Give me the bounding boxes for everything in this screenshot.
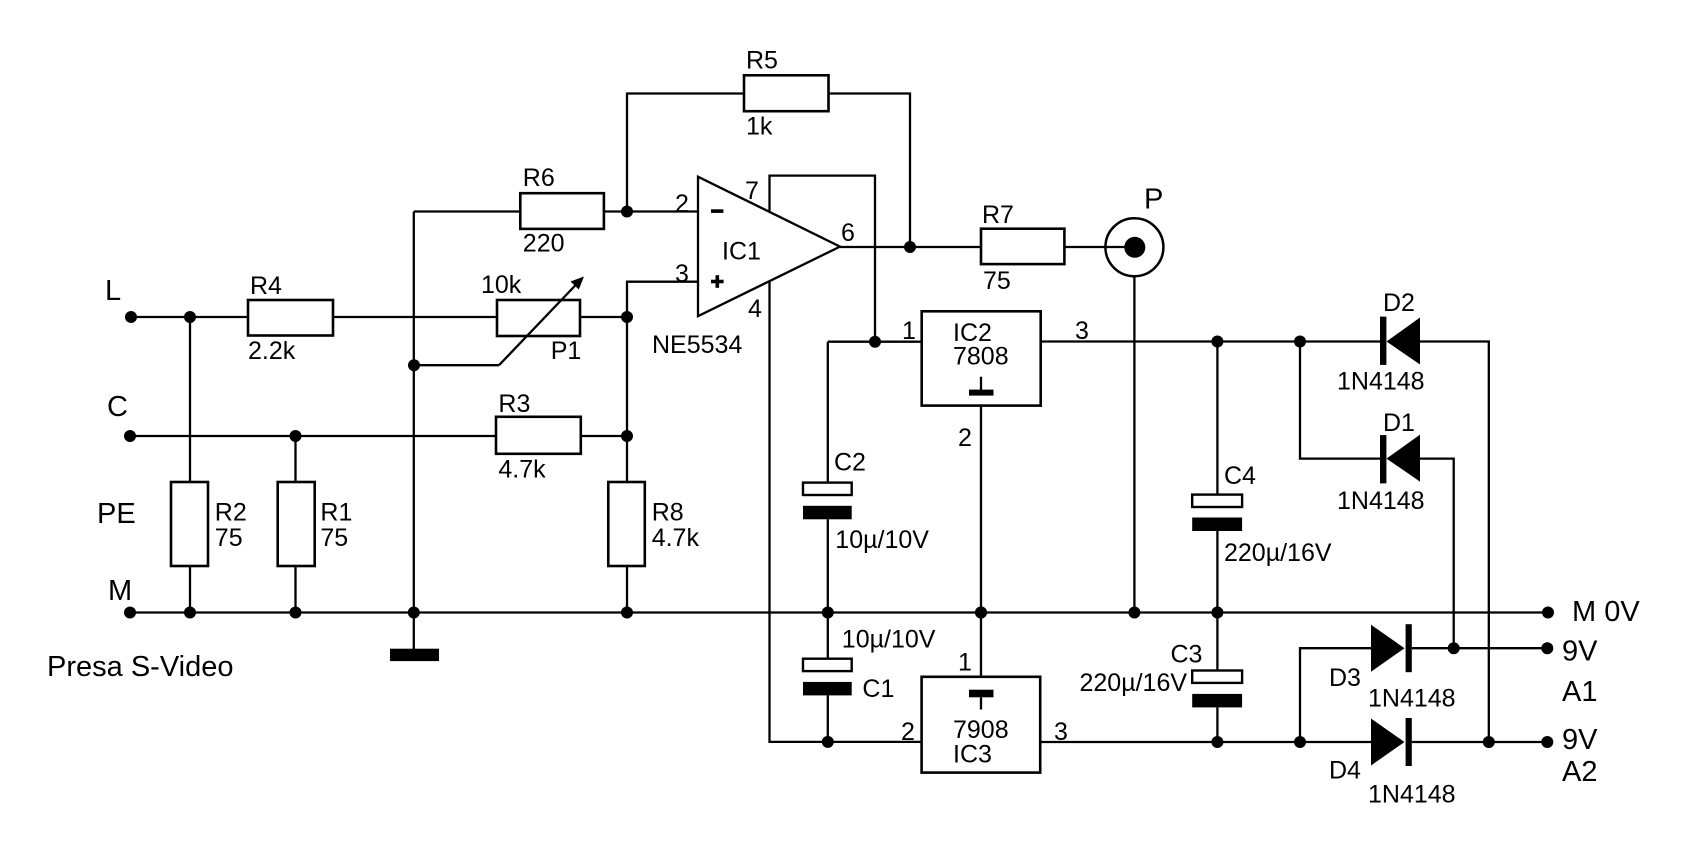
svg-text:220µ/16V: 220µ/16V [1224, 539, 1332, 567]
wire R6 left [414, 210, 521, 212]
wire C3 top [1216, 613, 1218, 671]
node wiper junction [408, 359, 420, 371]
wire R8 bottom [626, 566, 628, 613]
svg-text:3: 3 [675, 260, 689, 288]
resistor R8 [608, 482, 645, 566]
node M-IC2 [975, 607, 987, 619]
resistor R3 [496, 417, 581, 454]
wire node to IC2 pin1 [828, 341, 922, 343]
node R3 output junction [621, 430, 633, 442]
wire IC3 pin1 [980, 613, 982, 677]
node R6 output junction [621, 206, 633, 218]
svg-text:220µ/16V: 220µ/16V [1080, 669, 1188, 697]
node M-C2 [822, 607, 834, 619]
node C3 bottom junction [1211, 736, 1223, 748]
svg-text:R2: R2 [215, 499, 247, 527]
svg-text:10µ/10V: 10µ/10V [842, 626, 936, 654]
node D4-D2 junction [1483, 736, 1495, 748]
svg-text:L: L [105, 275, 121, 307]
wire R4 to P1 [333, 316, 497, 318]
node supply junction [869, 336, 881, 348]
svg-text:A1: A1 [1562, 676, 1597, 708]
node M-R8 [621, 607, 633, 619]
svg-text:75: 75 [215, 524, 243, 552]
svg-text:1N4148: 1N4148 [1368, 781, 1456, 809]
wire L input [131, 316, 248, 318]
potentiometer P1 [497, 300, 580, 336]
svg-text:1N4148: 1N4148 [1337, 368, 1425, 396]
wire vertical branch to ground [413, 212, 415, 613]
diode D4 [1371, 719, 1405, 766]
svg-text:IC3: IC3 [953, 740, 992, 768]
svg-text:PE: PE [97, 498, 136, 530]
svg-text:R8: R8 [652, 499, 684, 527]
wire D1 branch [1300, 342, 1380, 459]
node M-ground [408, 607, 420, 619]
svg-text:2.2k: 2.2k [248, 337, 296, 365]
wire R2 bottom [189, 566, 191, 613]
wire C4 top [1216, 342, 1218, 495]
svg-text:1N4148: 1N4148 [1368, 685, 1456, 713]
diode D1 [1380, 435, 1386, 483]
wire C rail [130, 435, 496, 437]
svg-text:9V: 9V [1562, 635, 1598, 667]
wire P1 out [580, 316, 627, 318]
svg-text:R1: R1 [320, 499, 352, 527]
wire R5 feedback right segment [829, 94, 911, 248]
wire op-amp pin2 input [627, 210, 698, 212]
wire R5 feedback left segment [627, 94, 744, 212]
node M-R2 [184, 607, 196, 619]
svg-text:Presa S-Video: Presa S-Video [47, 651, 233, 683]
svg-text:2: 2 [958, 424, 972, 452]
resistor R2 [171, 482, 208, 566]
svg-text:M: M [108, 575, 132, 607]
svg-text:1N4148: 1N4148 [1337, 487, 1425, 515]
node M 0V terminal [1542, 607, 1554, 619]
node D3/D4 branch junction [1294, 736, 1306, 748]
node M-C4 [1211, 607, 1223, 619]
svg-text:220: 220 [523, 230, 565, 258]
svg-text:2: 2 [901, 718, 915, 746]
resistor R7 [981, 229, 1064, 264]
wire R6 right [604, 210, 627, 212]
resistor R6 [520, 193, 604, 229]
node D3-D1 junction [1448, 642, 1460, 654]
wire IC2 pin3 rail [1041, 340, 1380, 342]
svg-text:1: 1 [958, 649, 972, 677]
wire D4 to A2 terminal [1412, 741, 1548, 743]
wire pin7 supply loop [770, 176, 876, 342]
svg-text:R7: R7 [982, 201, 1014, 229]
node M-IC3 [975, 607, 987, 619]
wire D1 to A1 column [1420, 459, 1454, 649]
op-amp U1 IC1 [698, 177, 840, 317]
wire C2 top [827, 342, 829, 483]
node L junction [184, 311, 196, 323]
svg-text:M 0V: M 0V [1572, 596, 1640, 628]
node L terminal [125, 311, 137, 323]
wire op-amp pin3 input [627, 282, 698, 482]
node C1 bottom junction [822, 736, 834, 748]
wire IC3 pin3 rail [1040, 741, 1371, 743]
wire pin4 supply down [770, 281, 922, 742]
svg-text:C3: C3 [1171, 641, 1203, 669]
svg-text:R3: R3 [498, 390, 530, 418]
node output junction [904, 241, 916, 253]
wire D3 to A1 terminal [1412, 647, 1548, 649]
svg-text:D1: D1 [1383, 409, 1415, 437]
svg-text:7: 7 [745, 177, 759, 205]
svg-text:A2: A2 [1562, 756, 1597, 788]
svg-text:1: 1 [902, 317, 916, 345]
ground [413, 613, 415, 650]
svg-text:R5: R5 [746, 47, 778, 75]
voltage regulator IC3 7908 [922, 677, 1041, 773]
svg-text:3: 3 [1075, 317, 1089, 345]
svg-text:4.7k: 4.7k [652, 524, 700, 552]
wire C2 bottom [827, 519, 829, 612]
svg-text:9V: 9V [1562, 724, 1598, 756]
svg-text:4.7k: 4.7k [498, 455, 546, 483]
wire M rail [130, 611, 1548, 613]
node M-P [1128, 607, 1140, 619]
resistor R1 [278, 482, 315, 566]
svg-text:C2: C2 [834, 449, 866, 477]
node C4 top junction [1211, 336, 1223, 348]
wire D2 to A2 column [1420, 342, 1489, 743]
svg-text:C: C [107, 391, 128, 423]
connector P [1105, 218, 1163, 276]
node R1 top junction [290, 430, 302, 442]
svg-text:R4: R4 [250, 272, 282, 300]
svg-text:D4: D4 [1329, 757, 1361, 785]
svg-text:75: 75 [983, 267, 1011, 295]
diode D2 [1380, 317, 1386, 365]
wire R1 bottom [294, 566, 296, 613]
wire P down to M rail [1133, 276, 1135, 612]
wire output to R7 [840, 246, 981, 248]
wire C1 top [827, 613, 829, 659]
svg-text:P1: P1 [551, 337, 582, 365]
wire C4 bottom [1216, 531, 1218, 613]
capacitor C1 [803, 659, 852, 671]
svg-text:IC1: IC1 [722, 238, 761, 266]
svg-text:10k: 10k [481, 271, 522, 299]
node C terminal [124, 430, 136, 442]
svg-text:10µ/10V: 10µ/10V [835, 526, 929, 554]
svg-text:P: P [1144, 184, 1163, 216]
svg-text:75: 75 [320, 524, 348, 552]
node M-R1 [290, 607, 302, 619]
diode D3 [1371, 625, 1405, 672]
svg-text:C1: C1 [862, 675, 894, 703]
wire C1 bottom [827, 695, 829, 742]
node M terminal [124, 607, 136, 619]
wire D3 branch [1300, 648, 1371, 742]
resistor R5 [744, 75, 829, 111]
svg-text:D2: D2 [1383, 289, 1415, 317]
svg-text:7808: 7808 [953, 342, 1009, 370]
node P1 out [621, 311, 633, 323]
svg-text:NE5534: NE5534 [652, 331, 742, 359]
node A2 terminal [1541, 736, 1553, 748]
svg-text:1k: 1k [746, 113, 773, 141]
wire R3 right [581, 435, 627, 437]
resistor R4 [248, 300, 333, 336]
node A1 terminal [1541, 642, 1553, 654]
wire P1 wiper [414, 364, 499, 366]
svg-text:C4: C4 [1224, 462, 1256, 490]
wire C3 bottom [1216, 707, 1218, 742]
svg-text:6: 6 [841, 219, 855, 247]
svg-text:R6: R6 [523, 164, 555, 192]
wire R2 top [189, 317, 191, 482]
svg-text:4: 4 [748, 295, 762, 323]
node D1/D2 branch junction [1294, 336, 1306, 348]
wire R7 to P [1064, 246, 1134, 248]
svg-text:3: 3 [1054, 718, 1068, 746]
voltage regulator IC2 7808 [922, 311, 1041, 405]
svg-text:2: 2 [675, 190, 689, 218]
wire R1 top [294, 436, 296, 482]
svg-text:D3: D3 [1329, 664, 1361, 692]
wire IC2 pin2 down [980, 406, 982, 613]
